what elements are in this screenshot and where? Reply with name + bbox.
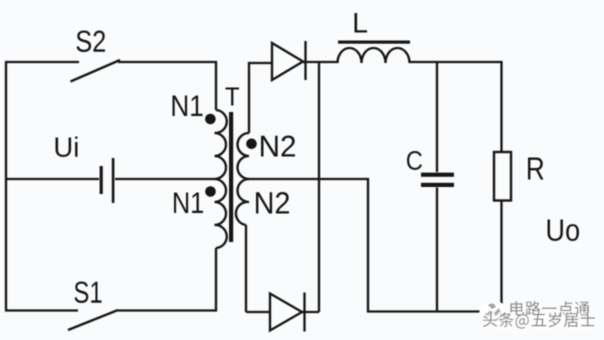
wire secondary center tap to bottom rail: [244, 179, 502, 312]
switch S2 blade: [71, 60, 121, 82]
label N1: [173, 96, 203, 117]
diode D2 bottom: [270, 294, 302, 331]
wire diodes common vertical: [318, 63, 320, 312]
label Ui: [56, 137, 78, 158]
inductor L core bar: [338, 41, 410, 44]
wire left rail: [5, 62, 7, 311]
polarity dot N2 top: [246, 139, 257, 150]
wire top rail to transformer primary: [118, 62, 216, 110]
wire diode D2 to common vertical: [302, 311, 319, 313]
transformer secondary winding N2: [236, 133, 249, 225]
wire battery to primary center tap: [115, 178, 215, 180]
label S2: [77, 31, 106, 53]
diode D1 top: [272, 43, 303, 80]
label L: [355, 13, 368, 33]
label N2: [261, 136, 295, 157]
battery Ui positive plate: [112, 158, 115, 203]
inductor L winding: [338, 48, 410, 63]
label R: [528, 158, 544, 180]
label N1: [174, 193, 203, 214]
wire capacitor bottom branch: [436, 188, 438, 312]
wire top rail left segment: [5, 61, 79, 63]
wire diode D1 output: [303, 61, 338, 63]
capacitor C bottom plate: [421, 183, 454, 187]
battery Ui negative plate: [100, 166, 103, 194]
polarity dot N1 bottom: [205, 186, 216, 197]
wire secondary bottom terminal: [245, 225, 247, 312]
wire inductor to right corner: [410, 62, 502, 152]
diode D1 cathode bar: [304, 41, 306, 80]
watermark icon: [479, 301, 506, 323]
label Uo: [548, 220, 580, 242]
wire bottom rail to transformer primary: [118, 248, 216, 311]
watermark text line 1: [511, 301, 592, 317]
switch S1 blade: [68, 310, 118, 330]
transformer core: [229, 112, 233, 242]
label N2: [256, 192, 289, 214]
watermark text line 2: [483, 312, 597, 330]
wire bottom diode anode: [246, 311, 270, 313]
wire bottom rail left segment: [5, 309, 78, 311]
capacitor C top plate: [421, 173, 454, 177]
polarity dot N1 top: [205, 114, 216, 125]
label C: [407, 151, 422, 170]
wire middle rail to battery: [5, 178, 99, 180]
wire secondary top terminal: [249, 63, 272, 133]
label S1: [75, 282, 102, 304]
diode D2 cathode bar: [303, 293, 305, 332]
label T: [226, 88, 240, 106]
resistor R body: [494, 152, 511, 201]
transformer primary winding N1: [215, 110, 227, 248]
wire capacitor top branch: [436, 63, 438, 172]
wire resistor bottom branch: [500, 201, 502, 312]
